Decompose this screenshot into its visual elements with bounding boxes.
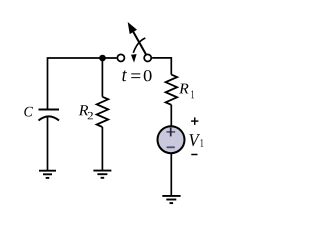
wire from switch right contact to right branch corner: [152, 57, 171, 59]
switch right contact circle: [144, 54, 151, 61]
wire from source down to ground: [170, 153, 172, 196]
label R1: [179, 84, 188, 94]
voltage source V1 circle: [158, 126, 185, 153]
label t = 0: [122, 70, 127, 81]
wire top horizontal from cap branch to switch left contact: [48, 57, 117, 59]
ground under R2: [93, 171, 111, 178]
capacitor C curved bottom plate: [39, 116, 60, 120]
plus mark inside source: [167, 128, 176, 137]
node A junction dot: [99, 55, 106, 62]
switch motion arc: [133, 38, 145, 53]
wire from R2 down to ground: [101, 127, 103, 170]
wire from R1 down to source V1: [170, 105, 172, 126]
ground under V1: [162, 196, 180, 203]
minus mark inside source: [167, 146, 175, 148]
ground under capacitor: [39, 171, 56, 178]
capacitor C top plate: [39, 109, 60, 111]
wire left vertical down to capacitor: [47, 57, 49, 109]
equals sign: [131, 73, 140, 78]
label - below V1: [191, 154, 197, 156]
switch motion arrowhead (down): [131, 54, 137, 63]
zero: [144, 70, 152, 81]
label V1: [189, 134, 200, 146]
switch blade: [133, 32, 146, 54]
wire from capacitor down to ground: [47, 116, 49, 171]
wire right vertical down to R1: [170, 57, 172, 75]
label R2: [79, 105, 89, 115]
resistor R1 zigzag: [166, 75, 178, 105]
label C: [24, 107, 33, 117]
wire from node down to R2: [101, 58, 103, 97]
switch left contact circle: [117, 54, 124, 61]
resistor R2 zigzag: [97, 97, 109, 127]
label + above V1: [191, 117, 198, 125]
switch blade arrowhead: [128, 22, 137, 34]
